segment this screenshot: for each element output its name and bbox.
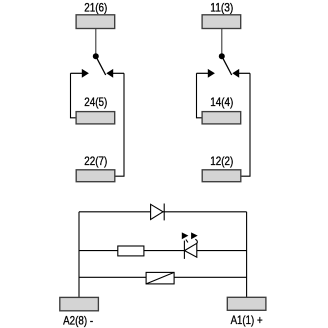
svg-text:A1(1) +: A1(1) + xyxy=(231,313,263,327)
contact arrow 22 (right) xyxy=(106,69,124,78)
svg-text:24(5): 24(5) xyxy=(84,95,107,109)
wire to 22(7) xyxy=(115,73,124,176)
wire 11 to pivot xyxy=(221,29,223,57)
terminal 14(4) xyxy=(202,112,241,124)
wire coil loop right xyxy=(246,212,248,297)
svg-text:11(3): 11(3) xyxy=(210,0,233,14)
svg-text:21(6): 21(6) xyxy=(84,0,107,14)
coil suppressor box xyxy=(146,272,174,284)
terminal A1(1) xyxy=(227,297,266,310)
label 11(3) xyxy=(210,0,233,14)
LED light arrow right xyxy=(191,232,198,243)
label 22(7) xyxy=(84,154,107,168)
switch lever pole 2 xyxy=(96,56,106,75)
wire coil loop left xyxy=(78,212,80,298)
terminal 21(6) xyxy=(76,15,115,29)
svg-text:22(7): 22(7) xyxy=(84,154,107,168)
contact arrow 24 (left) xyxy=(71,69,89,78)
junction dot pole 2 xyxy=(93,53,99,59)
svg-text:12(2): 12(2) xyxy=(210,154,233,168)
contact arrow 12 (right) xyxy=(232,69,250,78)
label 12(2) xyxy=(210,154,233,168)
wire 21 to pivot xyxy=(95,29,97,57)
LED light arrow left xyxy=(182,232,189,242)
contact arrow 14 (left) xyxy=(197,69,215,78)
label 14(4) xyxy=(210,95,233,109)
svg-text:14(4): 14(4) xyxy=(210,95,233,109)
svg-text:A2(8) -: A2(8) - xyxy=(63,314,93,328)
freewheeling diode xyxy=(151,204,165,221)
wire middle branch xyxy=(79,250,247,252)
label 24(5) xyxy=(84,95,107,109)
terminal 24(5) xyxy=(76,112,115,124)
terminal 22(7) xyxy=(76,170,115,182)
label A1(1) + xyxy=(231,313,263,327)
label 21(6) xyxy=(84,0,107,14)
resistor xyxy=(118,246,144,256)
wire bottom branch xyxy=(79,276,247,278)
label A2(8) - xyxy=(63,314,93,328)
wire to 12(2) xyxy=(241,73,250,176)
wire to 24(5) xyxy=(71,73,77,118)
wire to 14(4) xyxy=(197,73,203,118)
terminal 12(2) xyxy=(202,170,241,182)
wire top branch xyxy=(79,211,247,213)
LED indicator xyxy=(184,241,196,259)
terminal A2(8) xyxy=(60,297,99,310)
junction dot pole 1 xyxy=(219,53,225,59)
switch lever pole 1 xyxy=(222,56,232,75)
terminal 11(3) xyxy=(202,15,241,29)
